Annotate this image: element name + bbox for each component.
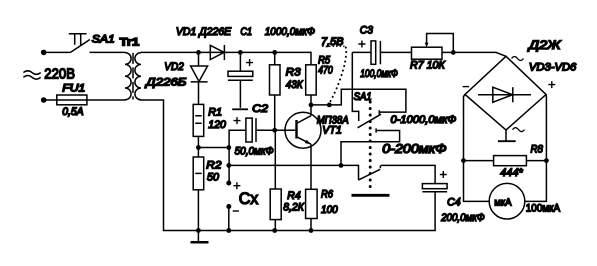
transformer Tr1 core [132, 53, 134, 100]
bridge bottom chassis [505, 130, 507, 141]
resistor R8 [464, 156, 547, 166]
svg-text:R3: R3 [286, 67, 302, 79]
svg-text:VD3-VD6: VD3-VD6 [529, 62, 577, 74]
dotted measure line [330, 48, 346, 103]
node: R8 right [544, 158, 549, 163]
node: base [272, 128, 277, 133]
svg-text:R4: R4 [287, 190, 300, 202]
svg-text:100мкА: 100мкА [526, 202, 561, 214]
dotted mechanical link [369, 102, 372, 193]
svg-text:R1: R1 [208, 107, 222, 119]
svg-text:FU1: FU1 [62, 83, 85, 95]
node: VD1 anode [196, 50, 201, 55]
node: rail Cx minus [226, 228, 231, 233]
wire: throw2 loop to lower pole node [341, 131, 400, 166]
tilde top [512, 57, 524, 61]
svg-text:Tr1: Tr1 [120, 37, 140, 49]
transformer Tr1 secondary winding [135, 53, 141, 100]
resistor R2 [193, 148, 204, 231]
svg-text:100: 100 [321, 204, 338, 216]
svg-text:R6: R6 [321, 189, 334, 201]
svg-text:мкА: мкА [494, 196, 511, 208]
wire: bridge left to meter [464, 95, 490, 202]
transistor VT1 [275, 112, 321, 189]
node: R1 bottom [196, 145, 201, 150]
node: C1 top [238, 50, 243, 55]
node: Cx plus terminal [226, 181, 231, 186]
capacitor C2 [229, 117, 275, 183]
fuse FU1 [44, 95, 125, 105]
node: R5/collector [309, 103, 314, 108]
wire: lower throw to C4 [381, 165, 435, 183]
svg-text:50,0мкФ: 50,0мкФ [235, 146, 274, 158]
resistor R1 [193, 104, 204, 147]
svg-text:0,5А: 0,5А [62, 106, 83, 118]
svg-text:470: 470 [318, 64, 333, 76]
svg-text:8,2К: 8,2К [283, 202, 304, 214]
svg-text:43К: 43К [286, 79, 303, 91]
wire: collector node to throw1 loop [311, 89, 406, 112]
terminal: input top [41, 50, 47, 56]
tick: lower throw contact [379, 165, 381, 168]
capacitor C3 [352, 41, 411, 65]
svg-text:50: 50 [207, 172, 220, 184]
label minus (Cx) [233, 210, 239, 212]
svg-text:1000,0мкФ: 1000,0мкФ [265, 26, 316, 38]
svg-text:C1: C1 [240, 26, 252, 38]
svg-text:0-200мкФ: 0-200мкФ [382, 142, 446, 156]
svg-text:220В: 220В [44, 66, 75, 83]
svg-text:Cx: Cx [239, 189, 259, 208]
node: rail R2 [196, 228, 201, 233]
node: Cx minus terminal [226, 204, 231, 209]
svg-text:C3: C3 [360, 25, 374, 37]
node: rail R4 [272, 228, 277, 233]
svg-text:Д2Ж: Д2Ж [526, 38, 561, 52]
switch SA1 upper arm [358, 114, 381, 128]
node: measure point [327, 103, 332, 108]
svg-text:100,0мкФ: 100,0мкФ [360, 68, 398, 80]
resistor R3 [270, 52, 281, 189]
node: R7 output [451, 50, 456, 55]
svg-text:C4: C4 [447, 197, 461, 209]
switch SA1 upper pole from C3 [352, 52, 358, 121]
wire: R1/R2 to C2 branch [198, 147, 228, 149]
wire: collector [310, 105, 312, 116]
switch SA1 (mains) [46, 34, 90, 53]
svg-text:R8: R8 [531, 144, 544, 156]
node: rail R6 [309, 228, 314, 233]
wire: top rail secondary to R5 corner [141, 52, 311, 64]
node: C2 branch [226, 145, 231, 150]
AC symbol ~~ [23, 71, 40, 79]
ground symbol [197, 231, 199, 242]
svg-text:VD2: VD2 [164, 61, 184, 73]
dotted measure underline [323, 45, 345, 47]
mechanical bar [352, 194, 390, 197]
switch SA1 lower pole [341, 165, 359, 179]
terminal: input bottom [41, 97, 47, 103]
resistor R6 [306, 189, 318, 230]
svg-text:120: 120 [208, 119, 227, 131]
switch SA1 lower arm [358, 169, 380, 180]
diode VD1 [210, 45, 224, 60]
node: lower switch pole [339, 163, 344, 168]
svg-text:SA1: SA1 [92, 34, 115, 46]
svg-text:200,0мкФ: 200,0мкФ [440, 212, 485, 224]
svg-text:0-1000,0мкФ: 0-1000,0мкФ [391, 114, 457, 126]
svg-text:Д226Б: Д226Б [144, 76, 187, 88]
resistor R4 [270, 189, 281, 231]
label plus (Cx) [233, 182, 240, 189]
tilde bottom [513, 128, 525, 132]
node: R8 left [461, 158, 466, 163]
label plus (bridge) [548, 81, 555, 88]
svg-text:VD1 Д226Е: VD1 Д226Е [176, 26, 232, 38]
svg-text:444*: 444* [500, 167, 523, 179]
wire: secondary bottom to ground rail [141, 100, 435, 231]
diode bridge VD3-VD6 [465, 56, 546, 130]
wire: Cx minus to rail [228, 207, 230, 231]
label minus (bridge) [463, 86, 469, 88]
tick: throw1 contact [378, 110, 380, 114]
meter PA1 [489, 183, 525, 219]
wire: bridge right to meter [525, 95, 547, 202]
diode VD2 [191, 52, 208, 104]
wire: switch to transformer primary [90, 51, 126, 53]
svg-text:R2: R2 [206, 159, 221, 171]
resistor R5 [306, 65, 317, 105]
node: R3 top [272, 50, 277, 55]
wire: to bridge top [453, 52, 506, 56]
svg-text:C2: C2 [252, 103, 268, 115]
svg-text:SA1: SA1 [354, 91, 372, 103]
transformer Tr1 primary winding [125, 53, 131, 100]
capacitor C4 [422, 171, 447, 192]
potentiometer R7 [412, 34, 454, 60]
wire: Cx plus line to switch pole [229, 164, 341, 166]
node: emitter line at C2 branch [226, 163, 231, 168]
svg-text:VT1: VT1 [322, 125, 342, 137]
tick: throw2 contact [375, 128, 377, 132]
svg-text:R7 10К: R7 10К [410, 60, 445, 72]
capacitor C1 [228, 52, 253, 109]
